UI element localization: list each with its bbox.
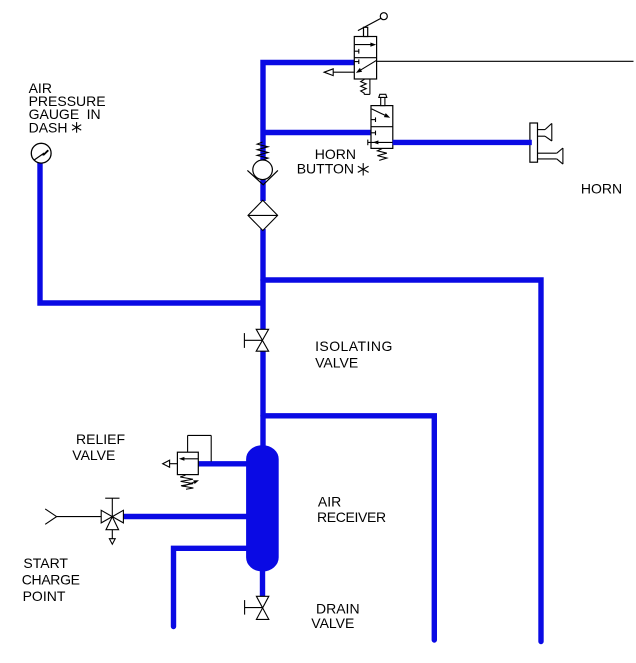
wire right branch and right drop bbox=[263, 280, 541, 642]
horn H1 upper trumpet bbox=[538, 123, 552, 141]
label horn button bbox=[297, 146, 356, 177]
valve V1 lever 3/2 valve body bbox=[354, 37, 376, 80]
coupling SC1 start charge chevron bbox=[45, 509, 56, 524]
check valve CV1 ball bbox=[253, 160, 273, 180]
label drain valve bbox=[311, 601, 359, 631]
wire check valve to filter bbox=[260, 179, 265, 202]
svg-text:BUTTON: BUTTON bbox=[297, 161, 354, 177]
coupling SC1 left triangle bbox=[101, 510, 112, 523]
coupling SC1 right triangle bbox=[112, 510, 123, 523]
label relief valve bbox=[72, 431, 125, 463]
valve V4 internal flow arrow bbox=[179, 457, 198, 461]
wire gauge drop and horizontal run bbox=[40, 162, 263, 303]
valve V2 horn button 3/2 valve body bbox=[371, 106, 393, 149]
wire relief valve output bbox=[198, 461, 250, 466]
valve V1 bottom cell blocked port bbox=[354, 59, 359, 64]
valve V4 exhaust arrow bbox=[163, 460, 178, 467]
valve V2 bottom cell blocked port bbox=[371, 131, 376, 136]
coupling SC1 line bbox=[57, 516, 102, 518]
valve V1 top cell flow arrow bbox=[355, 43, 376, 47]
wire supply top: horizontal to lever valve and main vertical drop bbox=[263, 63, 355, 161]
label air receiver bbox=[317, 494, 386, 525]
valve V1 top cell blocked port bbox=[354, 49, 359, 54]
horn H1 lower trumpet bbox=[538, 148, 563, 164]
label air pressure gauge in dash bbox=[29, 80, 106, 136]
wire horn output line bbox=[393, 140, 532, 145]
valve V1 lever arm bbox=[358, 18, 381, 30]
wire start charge line bbox=[123, 514, 250, 519]
valve V5 drain valve bbox=[245, 596, 269, 619]
svg-text:VALVE: VALVE bbox=[72, 447, 115, 463]
valve V3 isolating valve bbox=[244, 329, 268, 351]
valve V1 exhaust line and arrow bbox=[324, 69, 354, 76]
label start charge point bbox=[22, 555, 80, 604]
valve V4 relief valve pilot box bbox=[188, 435, 212, 461]
valve V2 top cell blocked port bbox=[371, 117, 376, 122]
svg-text:DASH: DASH bbox=[29, 119, 68, 135]
wire mid branch and drop bbox=[263, 416, 434, 640]
check valve CV1 spring bbox=[257, 142, 268, 160]
wire horn button branch bbox=[261, 130, 372, 135]
note asterisk for horn button label bbox=[358, 163, 369, 175]
wire thin signal line to right edge bbox=[377, 60, 634, 62]
valve V4 relief valve body bbox=[177, 452, 198, 474]
svg-text:AIR: AIR bbox=[318, 494, 341, 510]
svg-text:VALVE: VALVE bbox=[311, 615, 354, 631]
valve V2 push button cap bbox=[379, 94, 387, 97]
check valve CV1 seat bbox=[247, 170, 278, 184]
valve V1 lever knob bbox=[380, 13, 387, 20]
valve V2 bottom cell flow line to exhaust bbox=[368, 140, 393, 146]
svg-text:ISOLATING: ISOLATING bbox=[315, 338, 393, 354]
filter F1 diamond bbox=[248, 200, 278, 230]
wire drain branch bbox=[174, 548, 251, 626]
svg-text:VALVE: VALVE bbox=[315, 355, 358, 371]
svg-text:RELIEF: RELIEF bbox=[76, 431, 125, 447]
wire filter to isolating valve bbox=[260, 229, 265, 330]
valve V2 push button stub bbox=[381, 97, 385, 105]
valve V1 return spring bbox=[361, 79, 370, 94]
wire receiver bottom stub bbox=[260, 569, 265, 597]
valve V1 actuator stub bbox=[364, 27, 368, 36]
wire isolating valve to air receiver bbox=[260, 351, 265, 448]
valve V2 top cell diagonal flow path bbox=[372, 109, 391, 118]
svg-text:START: START bbox=[23, 555, 68, 571]
coupling SC1 vent line and arrow bbox=[109, 530, 115, 545]
label isolating valve bbox=[315, 338, 393, 370]
gauge G1 bbox=[31, 143, 51, 163]
svg-text:RECEIVER: RECEIVER bbox=[317, 509, 386, 525]
svg-text:IN: IN bbox=[87, 106, 101, 122]
valve V1 bottom cell diagonal flow path bbox=[356, 60, 377, 73]
svg-text:HORN: HORN bbox=[581, 181, 622, 197]
horn H1 manifold bbox=[530, 123, 538, 162]
coupling SC1 top stem and cap bbox=[105, 498, 119, 516]
svg-text:POINT: POINT bbox=[23, 588, 66, 604]
valve V4 adjustable spring bbox=[180, 475, 199, 489]
coupling SC1 bottom triangle bbox=[106, 517, 119, 530]
svg-text:CHARGE: CHARGE bbox=[22, 571, 80, 587]
note asterisk for gauge label bbox=[72, 122, 81, 133]
receiver T1 air receiver vessel bbox=[247, 446, 279, 571]
valve V2 return spring bbox=[377, 149, 386, 161]
